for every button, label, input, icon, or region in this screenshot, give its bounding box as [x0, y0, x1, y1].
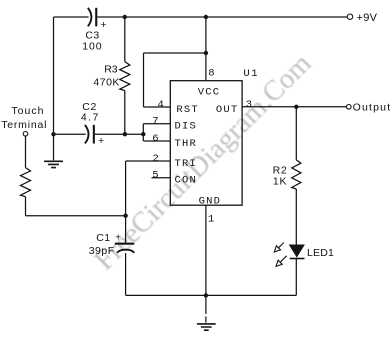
svg-text:OUT: OUT — [216, 104, 239, 116]
svg-text:+: + — [115, 232, 121, 244]
svg-text:LED1: LED1 — [307, 247, 334, 259]
svg-text:R3: R3 — [104, 63, 118, 75]
svg-text:+9V: +9V — [357, 12, 378, 24]
svg-text:DIS: DIS — [175, 121, 198, 133]
svg-text:470K: 470K — [93, 76, 120, 88]
svg-text:+: + — [98, 135, 104, 147]
svg-text:4: 4 — [158, 99, 164, 111]
svg-text:4.7: 4.7 — [81, 111, 100, 123]
svg-text:GND: GND — [199, 195, 222, 207]
svg-text:VCC: VCC — [198, 87, 221, 99]
svg-text:8: 8 — [208, 68, 214, 80]
svg-text:+: + — [100, 19, 106, 31]
svg-text:TRI: TRI — [175, 158, 198, 170]
svg-text:6: 6 — [152, 133, 158, 145]
svg-text:Output: Output — [353, 102, 392, 114]
svg-text:100: 100 — [82, 40, 102, 52]
svg-text:RST: RST — [176, 104, 199, 116]
svg-text:1K: 1K — [273, 175, 287, 187]
svg-text:2: 2 — [153, 153, 159, 165]
svg-text:Touch: Touch — [11, 105, 44, 117]
svg-text:3: 3 — [246, 99, 252, 111]
svg-text:39pF: 39pF — [89, 245, 115, 257]
svg-text:THR: THR — [175, 138, 198, 150]
svg-text:7: 7 — [152, 116, 158, 128]
svg-text:CON: CON — [175, 175, 198, 187]
svg-text:5: 5 — [152, 169, 158, 181]
svg-text:1: 1 — [208, 214, 214, 226]
svg-text:C1: C1 — [96, 232, 110, 244]
svg-text:Terminal: Terminal — [1, 119, 47, 131]
svg-text:U1: U1 — [243, 68, 259, 80]
